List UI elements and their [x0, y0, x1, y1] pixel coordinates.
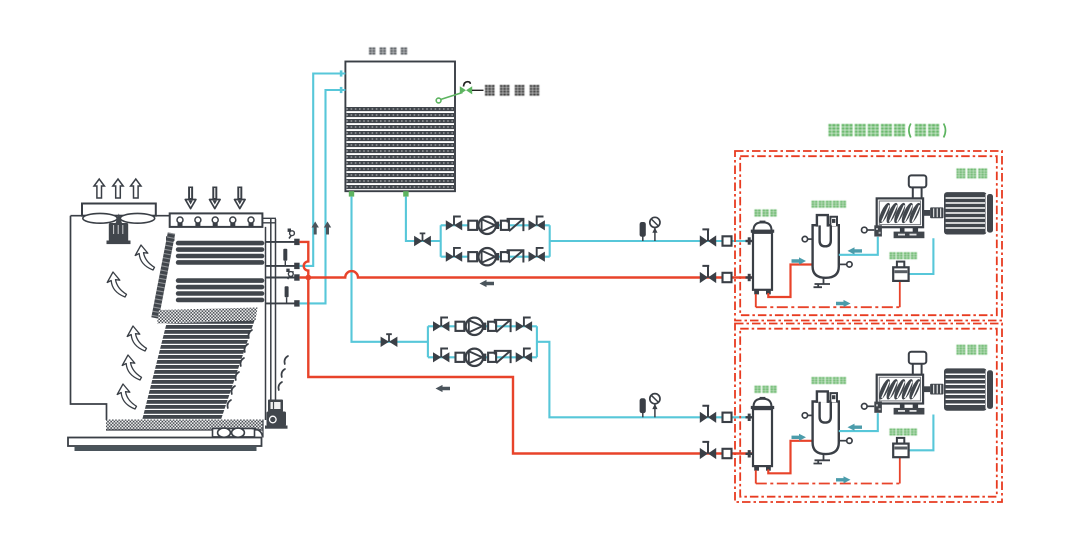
fan motor — [109, 223, 128, 243]
flex joint unit1 cyan inlet — [723, 236, 732, 245]
red oil filter drop — [899, 281, 901, 307]
screw compressor casing — [877, 198, 923, 227]
fan hub — [116, 213, 122, 223]
float ball — [436, 98, 441, 103]
tower base — [68, 438, 262, 447]
lower pump group manifolds — [428, 326, 537, 357]
air flow arrow 1 — [135, 245, 154, 270]
tower circulation pump body — [267, 412, 287, 427]
flow arrow left lower — [436, 385, 451, 392]
cooling tower — [68, 179, 300, 451]
gate valve unit2 cyan inlet — [700, 406, 716, 423]
unit 2 border (inner) — [740, 329, 997, 497]
tower casing left wall — [71, 216, 107, 420]
tank inlet nozzle 1 — [340, 70, 343, 76]
exhaust air arrow 1 — [94, 179, 104, 198]
red return main (upper) with crossover bump — [300, 271, 753, 277]
air flow arrow 5 — [117, 384, 136, 409]
basin walls — [106, 420, 263, 438]
flex joint unit2 red outlet — [723, 449, 732, 458]
cooler top flange — [751, 230, 774, 233]
red oil line cooler to separator — [768, 265, 826, 298]
slanted fill media block — [142, 321, 255, 423]
label 接自来水 — [485, 85, 539, 96]
separator internal U tube — [820, 225, 831, 246]
flex joint unit2 cyan inlet — [723, 413, 732, 422]
intake air arrow 2 — [210, 187, 221, 209]
unit 1 border (outer) — [735, 151, 1002, 321]
cooler nozzle lower — [746, 276, 754, 278]
oil filter label 油过滤器 — [890, 252, 917, 259]
tower circulation pump motor — [268, 400, 283, 413]
sensor well B — [285, 286, 289, 297]
slanted hatch edge bar — [155, 233, 172, 318]
pump branch 1A — [441, 217, 550, 235]
spray nozzle 3 — [212, 217, 218, 223]
red oil return (dash-dot bottom run) — [756, 306, 900, 308]
float valve arm — [441, 93, 463, 100]
separator right fitting — [847, 262, 852, 267]
water cooler shell — [753, 233, 772, 290]
tank inlet nozzle 2 — [340, 87, 343, 93]
red oil line: cooler left foot drop — [755, 294, 757, 307]
tower right wall — [265, 227, 267, 420]
gate valve unit1 cyan inlet — [700, 229, 716, 246]
flow arrow up 1 — [312, 222, 319, 235]
unit 1 border (inner) — [740, 156, 997, 315]
compressor base skid — [894, 232, 925, 239]
tank outlet fitting 1 — [349, 191, 354, 196]
tank outlet fitting 2 — [403, 191, 408, 196]
cyan line compressor to oil filter — [909, 238, 934, 274]
lower group inlet valve — [381, 334, 398, 347]
air compressor unit 2 — [746, 345, 994, 484]
riser pipe B — [275, 219, 277, 402]
motor end bell — [985, 194, 987, 233]
red junction dot — [305, 275, 311, 281]
cyan supply: tank outlet 1 to lower pump group — [352, 197, 428, 342]
pump branch 2B — [428, 349, 537, 367]
fan blade right — [120, 213, 154, 223]
flow arrow up 2 — [324, 222, 331, 235]
intake air arrow 1 — [185, 187, 196, 209]
air flow arrow 2 — [107, 272, 126, 297]
spray nozzle 1 — [177, 217, 183, 223]
drive motor — [944, 192, 987, 234]
oil-gas separator shell — [813, 225, 839, 278]
basin stipple — [106, 420, 263, 431]
tank shell — [345, 62, 455, 192]
upper cyan supply main to unit 1 — [550, 240, 753, 242]
pump branch 2A — [428, 318, 537, 336]
water cooler dome — [754, 222, 772, 230]
flow arrow right (oil return) — [836, 300, 851, 307]
instruments lower (thermometer + gauge) — [640, 394, 660, 418]
spray nozzle 2 — [195, 217, 201, 223]
air flow arrow 3 — [127, 326, 146, 351]
separator top right port — [830, 217, 837, 226]
compressor unloader — [862, 227, 868, 233]
flow arrow left upper — [480, 280, 495, 287]
label 循环水箱 — [369, 48, 407, 55]
oil filter cap — [897, 262, 904, 268]
vent cock B — [286, 269, 293, 279]
label 略图 — [915, 124, 939, 136]
splash stipple band — [157, 308, 258, 324]
cyan line separator to compressor — [839, 237, 878, 255]
basin outlet pipe — [213, 429, 255, 437]
spray header box — [170, 213, 263, 227]
cooler label 冷却器 — [755, 210, 777, 217]
red return riser/branch to unit 2 — [300, 242, 753, 454]
gate valve unit1 red outlet — [700, 266, 716, 283]
drive shaft — [923, 210, 930, 216]
coil bank (condenser coils) — [166, 236, 264, 302]
faucet spout — [464, 82, 471, 87]
instruments upper (thermometer + gauge) — [640, 217, 660, 241]
air curls inside right — [227, 330, 252, 408]
separator drain — [814, 278, 831, 287]
spray nozzle 4 — [230, 217, 236, 223]
exhaust air arrow 3 — [131, 179, 141, 198]
pump branch 1B — [441, 248, 550, 266]
upper group inlet valve — [414, 233, 431, 246]
flow arrow right (oil) — [792, 257, 807, 264]
unit 2 border (outer) — [735, 324, 1002, 503]
fan housing — [82, 204, 156, 216]
sensor well A — [283, 249, 287, 261]
leader line — [472, 89, 484, 91]
base plinth — [75, 446, 257, 451]
circulation water tank — [340, 48, 539, 197]
flow arrow left (air) — [848, 247, 863, 254]
separator top stack — [817, 215, 828, 227]
cyan return line tank-nozzle2 to tower connection 4 — [300, 90, 346, 303]
coupling — [930, 207, 943, 218]
intake air arrow 3 — [235, 187, 246, 209]
tower top deck line — [71, 215, 172, 217]
vent cock A — [288, 229, 295, 239]
air intake filter — [913, 184, 922, 199]
label 空压机系统图 — [829, 124, 906, 136]
cyan return line tank-nozzle1 to tower connection 2 — [300, 74, 346, 266]
riser pipe A — [270, 219, 272, 402]
coil connection 3 (hot in) — [266, 277, 296, 279]
tank water (striped) — [346, 107, 454, 189]
air flow arrow 4 — [122, 355, 141, 380]
air curls outside right wall — [278, 356, 288, 390]
coil connection 1 (hot in) — [266, 241, 296, 243]
lower cyan supply main to unit 2 — [537, 342, 753, 418]
fan blade left — [83, 213, 117, 223]
spray nozzle 5 — [248, 217, 254, 223]
tap water make-up valve — [460, 86, 472, 94]
compressor supports — [900, 227, 905, 232]
coil connection 4 (cold out) — [266, 302, 296, 304]
exhaust air arrow 2 — [113, 179, 123, 198]
separator label 油气分离器 — [812, 201, 847, 208]
gate valve unit2 red outlet — [700, 442, 716, 459]
separator left fitting — [802, 236, 807, 241]
screw rotor lobes — [877, 202, 923, 225]
oil filter body — [893, 267, 908, 281]
upper pump group manifolds — [441, 225, 550, 256]
flex joint unit1 red outlet — [723, 273, 732, 282]
cooler nozzle upper — [746, 240, 754, 242]
cooler feet — [754, 290, 759, 295]
coil connection 2 (cold out) — [266, 265, 296, 267]
cyan supply: tank outlet 2 to upper pump group — [406, 197, 441, 241]
spray header outlet bracket — [262, 218, 276, 223]
compressor label 压缩机 — [957, 169, 988, 179]
